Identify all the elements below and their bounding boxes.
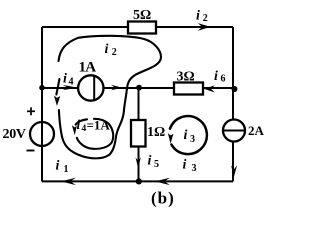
- svg-text:20V: 20V: [3, 127, 26, 142]
- svg-text:i: i: [148, 154, 152, 169]
- svg-text:2: 2: [203, 13, 208, 24]
- svg-text:i: i: [184, 128, 188, 143]
- svg-text:i: i: [214, 69, 218, 84]
- svg-text:i: i: [196, 9, 200, 24]
- svg-text:4: 4: [69, 77, 74, 88]
- svg-text:2A: 2A: [248, 123, 265, 138]
- svg-text:3: 3: [190, 134, 195, 145]
- svg-text:1Ω: 1Ω: [147, 125, 165, 140]
- svg-text:(b): (b): [151, 189, 175, 208]
- svg-text:i: i: [183, 158, 187, 173]
- svg-text:6: 6: [221, 74, 226, 85]
- svg-text:i: i: [63, 72, 67, 87]
- svg-text:i: i: [56, 159, 60, 174]
- svg-text:1: 1: [64, 164, 69, 175]
- svg-text:i: i: [105, 42, 109, 57]
- svg-text:1A: 1A: [79, 60, 97, 76]
- svg-text:3: 3: [192, 163, 197, 174]
- svg-text:2: 2: [112, 47, 117, 58]
- svg-text:=1A: =1A: [87, 118, 111, 133]
- svg-text:i: i: [77, 117, 81, 132]
- svg-text:3Ω: 3Ω: [177, 70, 195, 85]
- svg-text:5: 5: [154, 159, 159, 170]
- svg-text:5Ω: 5Ω: [133, 8, 151, 23]
